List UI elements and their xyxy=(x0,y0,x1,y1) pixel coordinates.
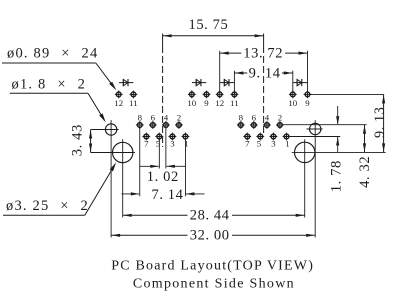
pad 11 left group xyxy=(130,91,138,99)
index hole left crosshair horizontal xyxy=(91,129,119,131)
title line 1 xyxy=(111,258,314,273)
index hole left centerline vertical xyxy=(110,120,112,237)
dim text 7.14 xyxy=(152,187,184,203)
svg-text:11: 11 xyxy=(230,98,238,108)
svg-text:ø1. 8 × 2: ø1. 8 × 2 xyxy=(12,77,87,93)
pad 4 right group xyxy=(263,121,271,129)
leader underline for 0.89 note xyxy=(2,62,96,64)
svg-text:32. 00: 32. 00 xyxy=(190,228,230,244)
pin label 9 right group xyxy=(305,98,310,108)
dim line 4.32 xyxy=(363,125,366,153)
note: hole dia 1.8 x 2 places xyxy=(12,77,87,93)
mounting hole right crosshair horizontal xyxy=(292,151,386,153)
pad 6 left group xyxy=(149,121,157,129)
dim line 15.75 xyxy=(163,34,264,37)
svg-text:3. 43: 3. 43 xyxy=(70,124,86,156)
pin label 5 left group xyxy=(156,139,161,149)
svg-text:4. 32: 4. 32 xyxy=(357,156,373,188)
svg-text:9: 9 xyxy=(305,98,310,108)
svg-text:15. 75: 15. 75 xyxy=(188,17,228,33)
extension line pin 1 left xyxy=(184,139,186,196)
pin label 8 left group xyxy=(138,112,143,122)
note: hole dia 3.25 x 2 places xyxy=(6,198,89,214)
svg-text:28. 44: 28. 44 xyxy=(190,208,230,224)
centerline right group (dashed) xyxy=(263,34,265,136)
dim text 3.43 (rotated) xyxy=(70,124,86,156)
pad 12 right group xyxy=(216,91,224,99)
extension line pad 11 right xyxy=(233,71,235,92)
diode D1 over left pads 12/11 xyxy=(119,79,133,86)
pad 9 left group xyxy=(203,91,211,99)
svg-text:10: 10 xyxy=(288,98,297,108)
dim text 28.44 xyxy=(190,208,230,224)
mounting hole right (3.25 dia) xyxy=(295,142,315,162)
dim text 1.78 (rotated) xyxy=(329,160,345,192)
dim text 1.02 xyxy=(147,169,179,185)
pin label 6 left group xyxy=(151,112,156,122)
pad 12 left group xyxy=(115,91,123,99)
index hole right (1.8 dia) xyxy=(310,123,321,134)
dim line 3.43 xyxy=(89,130,92,153)
svg-text:ø3. 25 × 2: ø3. 25 × 2 xyxy=(6,198,89,214)
pin label 1 right group xyxy=(285,139,289,149)
svg-text:ø0. 89 × 24: ø0. 89 × 24 xyxy=(7,46,98,62)
svg-text:8: 8 xyxy=(239,112,244,122)
dim line 7.14 (outside arrows) xyxy=(122,192,205,195)
diode D2 over left pads 10/9 xyxy=(192,79,206,86)
svg-text:6: 6 xyxy=(151,112,156,122)
svg-text:1. 02: 1. 02 xyxy=(147,169,179,185)
svg-text:6: 6 xyxy=(252,112,257,122)
extension line pad 9 row to 9.13 dim xyxy=(310,93,384,95)
svg-text:4: 4 xyxy=(164,112,169,122)
svg-text:12: 12 xyxy=(215,98,224,108)
diode D3 over right pads 12/11 xyxy=(220,79,234,86)
dim line 1.02 (outside arrows) xyxy=(140,165,186,168)
pin label 4 left group xyxy=(164,112,169,122)
pin label 3 right group xyxy=(271,139,276,149)
svg-text:Component Side Shown: Component Side Shown xyxy=(133,276,295,291)
pad 8 right group xyxy=(237,121,245,129)
pad 10 left group xyxy=(188,91,196,99)
dim text 9.13 (rotated) xyxy=(372,107,388,138)
index hole left (1.8 dia) xyxy=(105,124,116,135)
svg-text:3: 3 xyxy=(170,139,175,149)
dim line 9.14 xyxy=(234,71,292,74)
pin label 7 left group xyxy=(144,139,149,149)
leader underline for 3.25 note xyxy=(3,214,85,216)
dim text 13.72 xyxy=(243,46,283,62)
svg-text:7: 7 xyxy=(245,139,250,149)
title line 2 xyxy=(133,276,295,291)
svg-text:5: 5 xyxy=(156,139,161,149)
pin label 9 left group xyxy=(204,98,209,108)
svg-text:12: 12 xyxy=(114,98,123,108)
pin label 10 right group xyxy=(288,98,297,108)
pad 5 right group xyxy=(256,133,264,141)
svg-text:9: 9 xyxy=(204,98,209,108)
extension line pad 12 right xyxy=(219,51,221,91)
pin label 1 left group xyxy=(184,139,188,149)
pad 5 left group xyxy=(155,133,163,141)
pad 6 right group xyxy=(250,121,258,129)
dim line 32.00 xyxy=(111,234,315,237)
svg-text:3: 3 xyxy=(271,139,276,149)
svg-text:5: 5 xyxy=(257,139,262,149)
extension line pad 9 right xyxy=(307,51,309,91)
pad 10 right group xyxy=(289,91,297,99)
pad 7 right group xyxy=(243,133,251,141)
dim text 15.75 xyxy=(188,17,228,33)
pad 4 left group xyxy=(162,121,170,129)
pad 2 right group xyxy=(276,121,284,129)
svg-text:11: 11 xyxy=(129,98,137,108)
svg-text:PC Board Layout(TOP VIEW): PC Board Layout(TOP VIEW) xyxy=(111,258,314,273)
extension line pin 4 left xyxy=(165,128,167,169)
pin label 4 right group xyxy=(265,112,270,122)
pad 8 left group xyxy=(136,121,144,129)
pad 1 right group xyxy=(283,133,291,141)
pin label 6 right group xyxy=(252,112,257,122)
mounting hole left (3.25 dia) xyxy=(113,142,133,162)
pad 1 left group xyxy=(182,133,190,141)
svg-text:13. 72: 13. 72 xyxy=(243,46,283,62)
leader arrow to left index hole xyxy=(88,93,106,122)
svg-text:1: 1 xyxy=(184,139,188,149)
pin label 12 left group xyxy=(114,98,123,108)
mounting hole right centerline vertical xyxy=(304,139,306,217)
pin label 11 right group xyxy=(230,98,238,108)
pad 3 left group xyxy=(169,133,177,141)
leader arrow to pad 12 (left) xyxy=(96,63,117,90)
index hole right centerline vertical xyxy=(314,120,316,237)
svg-text:4: 4 xyxy=(265,112,270,122)
pin label 7 right group xyxy=(245,139,250,149)
dim line 9.13 xyxy=(382,94,385,152)
mounting hole left centerline vertical xyxy=(122,139,124,217)
leader arrow to left mounting hole xyxy=(85,162,116,215)
dim text 32.00 xyxy=(190,228,230,244)
dim text 4.32 (rotated) xyxy=(357,156,373,188)
svg-text:7. 14: 7. 14 xyxy=(152,187,184,203)
svg-text:1: 1 xyxy=(285,139,289,149)
svg-text:9. 14: 9. 14 xyxy=(249,66,281,82)
pin label 5 right group xyxy=(257,139,262,149)
dim 1.78 stub arrows xyxy=(336,106,339,152)
leader underline for 1.8 note xyxy=(10,92,88,94)
diode D4 over right pads 10/9 xyxy=(293,79,307,86)
pin label 8 right group xyxy=(239,112,244,122)
svg-text:2: 2 xyxy=(177,112,181,122)
pin label 11 left group xyxy=(129,98,137,108)
pad 3 right group xyxy=(270,133,278,141)
pin label 2 right group xyxy=(278,112,282,122)
pad 11 right group xyxy=(231,91,239,99)
pin label 3 left group xyxy=(170,139,175,149)
pin label 10 left group xyxy=(187,98,196,108)
svg-text:7: 7 xyxy=(144,139,149,149)
pad 9 right group xyxy=(304,91,312,99)
extension line pad 10 right xyxy=(292,71,294,92)
svg-text:1. 78: 1. 78 xyxy=(329,160,345,192)
extension line pin 5 left xyxy=(158,139,160,168)
svg-text:10: 10 xyxy=(187,98,196,108)
dim text 9.14 xyxy=(249,66,281,82)
note: hole dia 0.89 x 24 places xyxy=(7,46,98,62)
svg-text:8: 8 xyxy=(138,112,143,122)
pin label 2 left group xyxy=(177,112,181,122)
centerline left group (dashed) xyxy=(162,34,164,148)
svg-text:2: 2 xyxy=(278,112,282,122)
extension line pin 8 left xyxy=(139,128,141,197)
pad 7 left group xyxy=(142,133,150,141)
pin label 12 right group xyxy=(215,98,224,108)
dim line 28.44 xyxy=(123,214,305,217)
mounting hole left crosshair horizontal xyxy=(91,152,135,154)
dim line 13.72 xyxy=(220,52,308,55)
svg-text:9. 13: 9. 13 xyxy=(372,107,388,138)
pad 2 left group xyxy=(175,121,183,129)
index hole right crosshair horizontal xyxy=(307,128,323,130)
extension line pad 1 row to 1.78 dim xyxy=(290,136,340,138)
extension line pad 2 row to 4.32 dim xyxy=(283,124,366,126)
